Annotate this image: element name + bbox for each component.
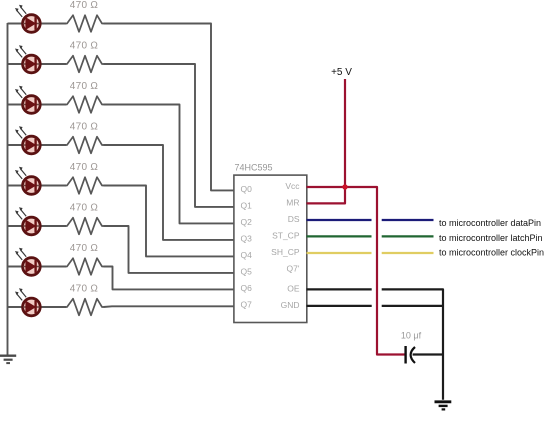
LED D2 xyxy=(15,45,40,73)
svg-text:470 Ω: 470 Ω xyxy=(70,203,99,214)
resistor R5 470 ohm xyxy=(65,177,104,194)
wire: R4 to IC pin Q3 xyxy=(104,145,235,240)
svg-text:Q1: Q1 xyxy=(241,201,253,211)
wire: LED cathode bus xyxy=(7,23,9,355)
wire: R5 to IC pin Q4 xyxy=(104,186,235,257)
junction: +5V net xyxy=(342,184,347,189)
svg-text:+5 V: +5 V xyxy=(331,67,352,78)
svg-text:MR: MR xyxy=(286,198,299,208)
resistor R4 470 ohm xyxy=(65,137,104,154)
LED D1 xyxy=(15,5,40,33)
wire: bus to LED5 to R5 xyxy=(8,185,67,187)
ground (supply) xyxy=(435,402,452,410)
svg-text:to microcontroller clockPin: to microcontroller clockPin xyxy=(439,248,544,258)
wire: capacitor - to ground bus xyxy=(413,353,443,355)
svg-text:Q0: Q0 xyxy=(241,184,253,194)
svg-text:10 μf: 10 μf xyxy=(401,331,422,341)
wire: R6 to IC pin Q5 xyxy=(104,226,235,273)
wire: R7 to IC pin Q6 xyxy=(104,267,235,290)
svg-text:GND: GND xyxy=(281,300,300,310)
wire: R1 to IC pin Q0 xyxy=(104,24,235,191)
wire: bus to LED7 to R7 xyxy=(8,266,67,268)
svg-text:DS: DS xyxy=(288,214,300,224)
wire: bus to LED6 to R6 xyxy=(8,225,67,227)
wire: ST_CP to microcontroller latchPin xyxy=(307,235,434,237)
svg-text:Q7: Q7 xyxy=(241,300,253,310)
svg-text:Q2: Q2 xyxy=(241,217,253,227)
svg-text:OE: OE xyxy=(287,284,300,294)
wire: bus to LED4 to R4 xyxy=(8,144,67,146)
wire: bus to LED8 to R8 xyxy=(8,306,67,308)
wire: R2 to IC pin Q1 xyxy=(104,64,235,207)
LED D8 xyxy=(15,288,40,316)
svg-text:470 Ω: 470 Ω xyxy=(70,162,99,173)
resistor R2 470 ohm xyxy=(65,56,104,73)
wire: DS to microcontroller dataPin xyxy=(307,219,434,221)
svg-text:470 Ω: 470 Ω xyxy=(70,41,99,52)
LED D7 xyxy=(15,248,40,276)
svg-text:470 Ω: 470 Ω xyxy=(70,243,99,254)
wire: Vcc to capacitor + xyxy=(307,187,405,355)
svg-text:to microcontroller latchPin: to microcontroller latchPin xyxy=(439,233,543,243)
wire: R8 to IC pin Q7 xyxy=(104,305,235,308)
LED D6 xyxy=(15,207,40,235)
resistor R8 470 ohm xyxy=(65,299,104,316)
svg-text:470 Ω: 470 Ω xyxy=(70,81,99,92)
svg-text:ST_CP: ST_CP xyxy=(272,231,300,241)
svg-text:470 Ω: 470 Ω xyxy=(70,122,99,133)
LED D3 xyxy=(15,86,40,113)
wire: OE to ground xyxy=(307,289,444,399)
wire: bus to LED3 to R3 xyxy=(8,104,67,106)
resistor R1 470 ohm xyxy=(65,15,104,32)
wire: R3 to IC pin Q2 xyxy=(104,105,235,224)
ground (LED cathode bus) xyxy=(0,356,16,363)
svg-text:Q6: Q6 xyxy=(241,283,253,293)
LED D4 xyxy=(15,126,40,154)
svg-text:SH_CP: SH_CP xyxy=(271,247,300,257)
svg-text:Vcc: Vcc xyxy=(285,181,300,191)
svg-text:470 Ω: 470 Ω xyxy=(70,284,99,295)
wire: SH_CP to microcontroller clockPin xyxy=(307,252,434,254)
wire: bus to LED2 to R2 xyxy=(8,63,67,65)
resistor R6 470 ohm xyxy=(65,218,104,235)
svg-text:Q4: Q4 xyxy=(241,250,253,260)
svg-text:Q3: Q3 xyxy=(241,234,253,244)
svg-text:Q7': Q7' xyxy=(287,264,300,274)
resistor R7 470 ohm xyxy=(65,258,104,275)
svg-text:74HC595: 74HC595 xyxy=(235,163,273,173)
resistor R3 470 ohm xyxy=(65,96,104,113)
IC U1 74HC595 shift register body xyxy=(234,175,307,322)
svg-text:470 Ω: 470 Ω xyxy=(70,0,99,11)
wire: GND pin to ground bus xyxy=(307,305,444,307)
wire: +5V to MR xyxy=(307,79,346,203)
capacitor C1 10uF xyxy=(406,346,415,364)
wire: bus to LED1 to R1 xyxy=(8,23,67,25)
svg-text:Q5: Q5 xyxy=(241,267,253,277)
LED D5 xyxy=(15,167,40,195)
svg-text:to microcontroller dataPin: to microcontroller dataPin xyxy=(439,218,541,228)
